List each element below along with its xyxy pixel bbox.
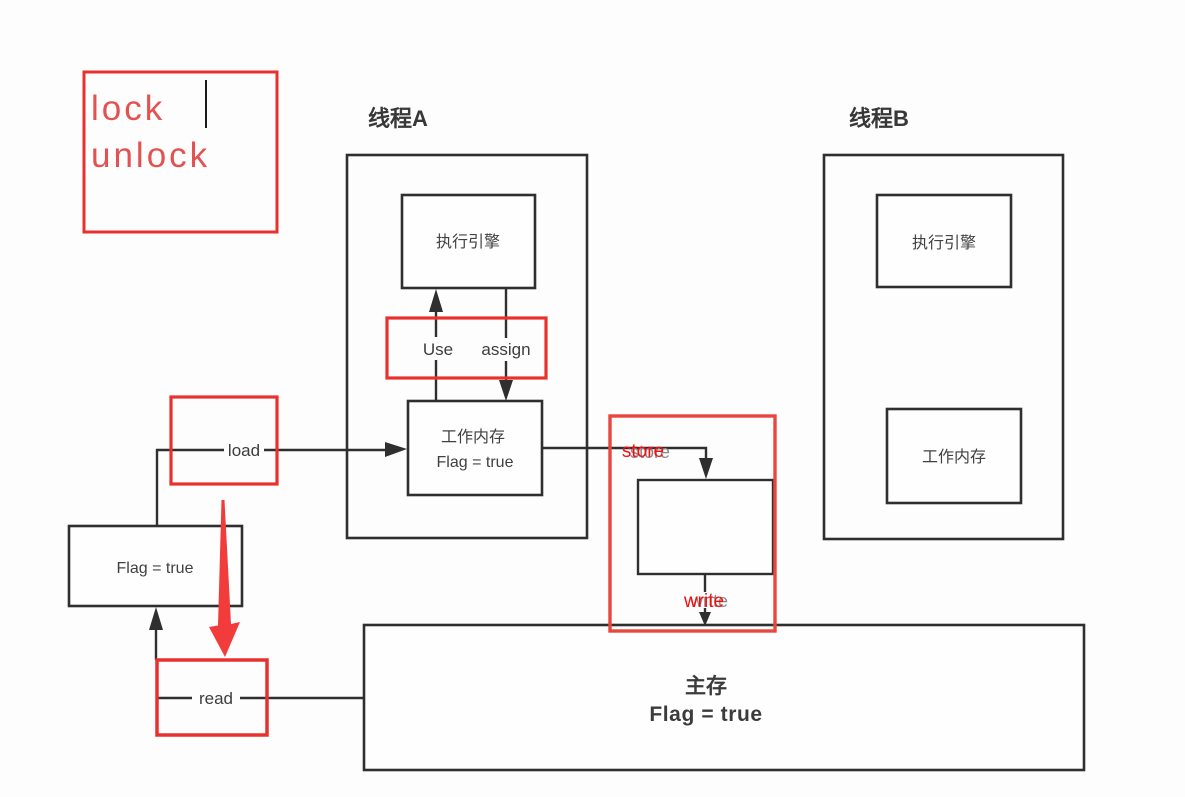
working memory A box 工作内存 / Flag = true [408,401,542,495]
working memory B box 工作内存 [887,409,1021,503]
svg-text:主存: 主存 [685,674,727,698]
execution engine A box 执行引擎 [402,195,535,288]
store/write red annotation box [610,416,775,631]
use arrow (up) [435,360,437,401]
load red annotation box [171,397,277,484]
store wire from working memory A to store buffer [542,448,706,460]
store buffer box [638,480,773,574]
svg-text:unlock: unlock [91,136,210,175]
read wire to main memory [157,697,192,699]
svg-text:read: read [199,689,233,708]
thick red freehand arrow [209,500,240,657]
wire from load corner down to Flag box [156,449,158,526]
read red annotation box [157,660,267,735]
svg-text:Use: Use [423,340,453,359]
svg-text:执行引擎: 执行引擎 [436,233,500,251]
svg-text:write: write [683,591,724,612]
Use / assign red annotation box [387,318,546,378]
assign arrow (down) [505,288,507,338]
svg-text:执行引擎: 执行引擎 [912,234,976,252]
svg-text:工作内存: 工作内存 [441,428,505,446]
svg-text:assign: assign [481,340,530,359]
svg-text:线程B: 线程B [849,106,909,131]
write arrow down to main memory [704,574,706,592]
load wire horizontal with arrow into working memory A [156,449,224,451]
svg-text:Flag = true: Flag = true [649,703,762,726]
lock/unlock red annotation box [84,72,277,232]
execution engine B box 执行引擎 [877,195,1011,287]
svg-text:store: store [622,441,664,462]
svg-text:Flag = true: Flag = true [117,560,194,577]
arrow up from read box to Flag box [155,628,157,660]
main memory box 主存 [364,625,1084,770]
svg-text:load: load [228,441,260,460]
thread A outer box [347,155,587,538]
Flag = true box [69,526,242,606]
svg-text:线程A: 线程A [368,106,428,131]
thread B outer box [824,155,1063,539]
svg-text:工作内存: 工作内存 [922,448,986,466]
svg-text:Flag = true: Flag = true [437,454,514,471]
text cursor [205,80,207,128]
svg-text:lock: lock [91,89,165,128]
